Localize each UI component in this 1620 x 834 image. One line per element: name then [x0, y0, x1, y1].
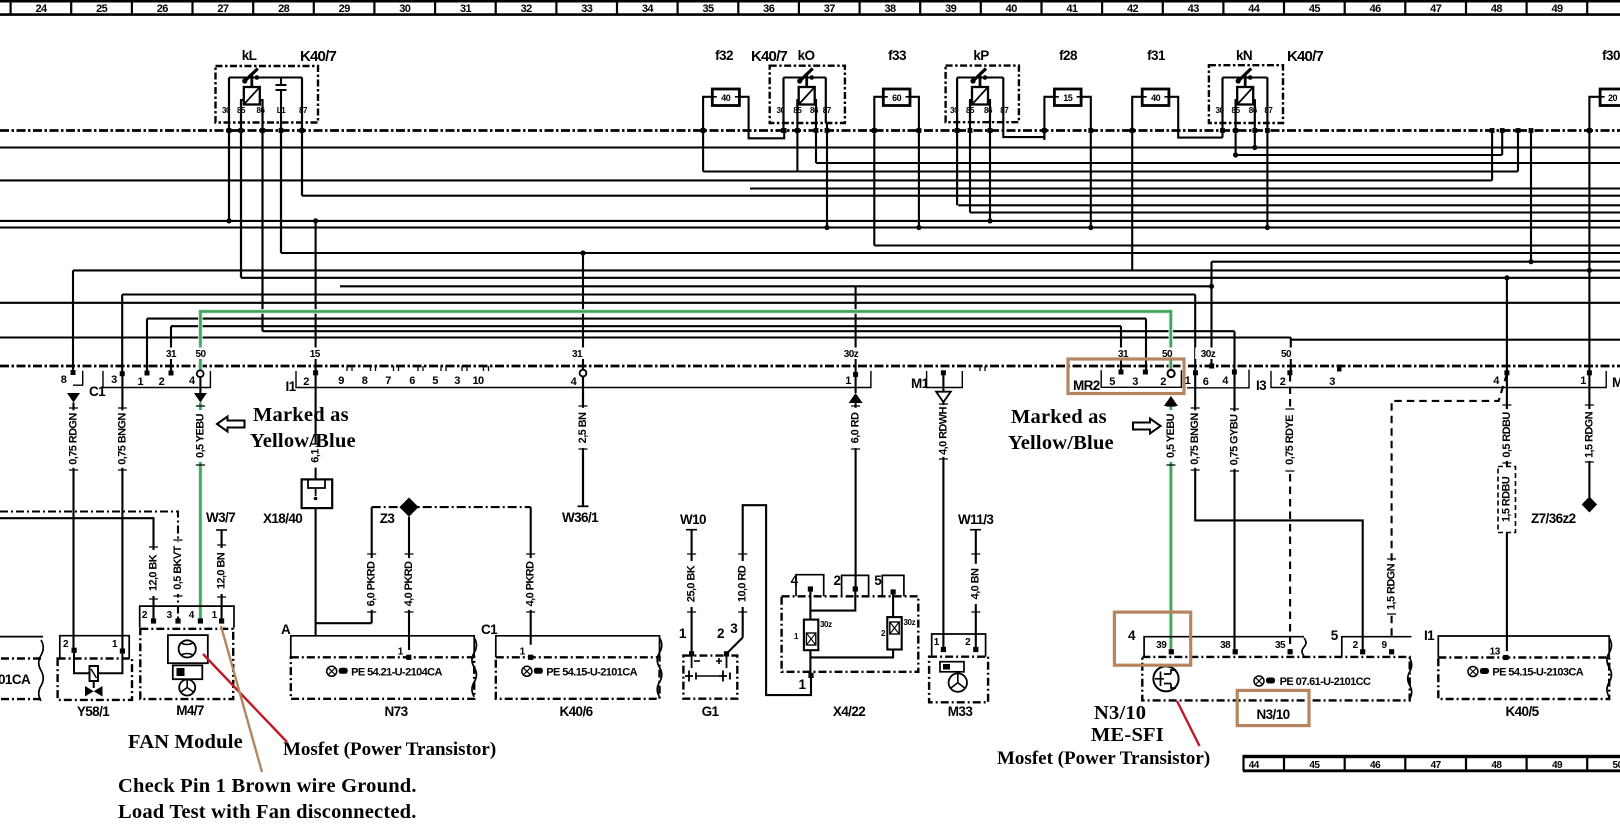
circuit label 30z over pin1: [838, 348, 864, 360]
bus line circuit 30 (dash-dot): [0, 129, 1620, 132]
svg-text:8: 8: [61, 374, 67, 386]
pin pad C1 pin1: [145, 371, 150, 376]
svg-text:K40/6: K40/6: [559, 704, 593, 719]
svg-text:43: 43: [1188, 3, 1200, 15]
wire 12,0 BN W3/7 to M4/7 pin1: [221, 530, 223, 621]
svg-text:50: 50: [1281, 349, 1292, 360]
wire M1 pad down RDWH to M33 pin1: [942, 373, 944, 650]
wire label 10,0 RD: [737, 561, 749, 607]
wire h326 elbow down to MR2 pin5: [1120, 326, 1122, 373]
svg-text:48: 48: [1491, 760, 1502, 771]
circuit label 30z over I3 pin6: [1195, 348, 1221, 360]
svg-text:W11/3: W11/3: [958, 512, 994, 527]
wire G1 pin2 switch link: [727, 638, 743, 654]
svg-text:45: 45: [1309, 760, 1320, 771]
wire f32 right jog to bus: [739, 97, 784, 139]
module K40/6 body box: [496, 657, 660, 699]
wire K40/5 pin13 feeder from h278: [1506, 278, 1508, 651]
svg-text:37: 37: [824, 3, 836, 15]
wire I1-4 pin jog dashed to N3/10 pin9: [1392, 374, 1507, 640]
wire line h303: [0, 302, 1620, 304]
label ticks RDYE: [1285, 409, 1294, 471]
label ticks 10,0 RD: [738, 554, 747, 612]
wire line h253 from kL-L1: [281, 252, 1620, 254]
wire kP pin87 jog to bus: [1003, 122, 1044, 137]
svg-text:PE 54.15-U-2103CA: PE 54.15-U-2103CA: [1492, 667, 1583, 679]
svg-text:33: 33: [581, 3, 593, 15]
wire 4,0 BN W11/3 to M33 pin2: [975, 530, 977, 650]
circuit label 50 over I3 pin2: [1276, 348, 1296, 360]
wire f33 right to h227: [910, 97, 919, 228]
ruler cell separators: [11, 2, 1588, 14]
component M4/7 body: [140, 629, 233, 699]
junction f33-h227: [916, 225, 921, 230]
svg-text:PE 54.21-U-2104CA: PE 54.21-U-2104CA: [351, 666, 442, 678]
junction f28-h227: [1088, 225, 1093, 230]
wire line h171: [703, 170, 1518, 172]
svg-text:60: 60: [892, 93, 902, 103]
fuse f33: [883, 89, 910, 106]
svg-text:85: 85: [966, 106, 975, 115]
svg-text:0,5 RDBU: 0,5 RDBU: [1501, 412, 1513, 458]
svg-text:1: 1: [799, 677, 807, 692]
wire kO pin87 down to h227: [826, 123, 828, 228]
boxed label 1,5 RDBU: [1498, 467, 1516, 533]
relay kO box: [770, 66, 845, 123]
svg-text:85: 85: [1232, 106, 1241, 115]
svg-text:39: 39: [1156, 640, 1167, 651]
svg-text:kP: kP: [973, 48, 989, 63]
junction h221-I1pin2: [313, 218, 318, 223]
svg-text:K40/7: K40/7: [751, 48, 787, 65]
pin pad C1 pin4 (circle): [197, 370, 204, 377]
component G1 pins: [689, 651, 694, 656]
wire label 0,75 BNGN: [116, 410, 128, 468]
svg-text:13: 13: [1490, 647, 1501, 658]
svg-text:40: 40: [1151, 93, 1161, 103]
svg-text:0,75 RDYE: 0,75 RDYE: [1284, 415, 1296, 465]
label ticks GYBU: [1230, 409, 1239, 471]
wire h262 corner down to I3 pin6: [1210, 262, 1212, 366]
annotation left block arrow: [217, 417, 245, 432]
highlight box N3/10 label: [1237, 690, 1309, 725]
svg-text:f32: f32: [715, 48, 733, 63]
module N73 logo glyphs: [327, 666, 348, 676]
component M4/7 pins 2 3 4 1: [151, 618, 156, 623]
svg-text:1: 1: [1185, 375, 1191, 387]
svg-text:42: 42: [1127, 3, 1139, 15]
connector bracket C1: [103, 371, 210, 388]
wire RDYE dashed I3 pin2 to N3/10 pin35: [1289, 374, 1291, 652]
svg-text:15: 15: [1063, 93, 1073, 103]
svg-text:4,0 BN: 4,0 BN: [970, 568, 982, 599]
solder point Z3 (diamond): [399, 498, 418, 517]
wire kP pin30 down to h205: [956, 122, 958, 205]
connector bracket C1 pin8: [73, 371, 83, 385]
wire kN pin30 down: [1221, 123, 1223, 138]
wire line h326 from C1 pin2 to MR2 pin5: [171, 325, 1121, 327]
module K40/5 torn edge: [1607, 638, 1612, 697]
svg-text:f31: f31: [1147, 48, 1166, 63]
svg-text:X4/22: X4/22: [833, 704, 865, 719]
component G1 body: [683, 656, 737, 699]
label ticks YEBU right: [1166, 406, 1175, 465]
wire kO pin86 down to h163: [815, 123, 817, 163]
wire bus drop to h180: [1491, 131, 1493, 181]
svg-text:12,0 BK: 12,0 BK: [147, 554, 159, 591]
label ticks RDGN: [69, 408, 78, 470]
wire kO pin30 to bus: [782, 123, 784, 131]
svg-text:01CA: 01CA: [0, 672, 31, 687]
wire label 6,1: [310, 444, 322, 467]
wire jog down at 1290: [1290, 338, 1292, 340]
svg-text:15: 15: [310, 349, 321, 360]
component X4/22 element 2 (fuse link): [887, 617, 901, 649]
label ticks RDWH: [939, 404, 948, 459]
wire label 0,5 YEBU right: [1165, 410, 1177, 462]
label ticks 6,0 RD: [851, 406, 860, 449]
wire h221 junction down to I1 pin2 and X18/40: [315, 221, 317, 480]
arrow MR2 pin2 starter feed (up): [1164, 396, 1178, 406]
relay kP pin stubs: [957, 78, 1003, 123]
wire line h180: [0, 179, 1492, 181]
module N3/10 mosfet symbol: [1153, 666, 1178, 691]
svg-text:1: 1: [1580, 375, 1586, 387]
wire label 1,5 RDGN right: [1583, 409, 1595, 461]
pin pad C1 pin2: [169, 371, 174, 376]
svg-text:2: 2: [1160, 376, 1166, 388]
svg-text:0,5 BKVT: 0,5 BKVT: [172, 545, 184, 589]
highlight box MR2 pins: [1068, 359, 1184, 394]
svg-text:I1: I1: [1424, 628, 1435, 643]
wire f30 left to bus down to rail and Z7 diamond: [1589, 97, 1600, 499]
wire 25,0 BK W10 to G1 pin1: [691, 530, 693, 654]
pin pad I1b pin4: [1504, 370, 1509, 375]
wire label 4,0 RDWH: [937, 405, 949, 457]
svg-text:85: 85: [237, 106, 246, 115]
circuit label 50 over MR2 pin2: [1157, 348, 1177, 360]
svg-text:30z: 30z: [844, 349, 859, 360]
wire line h286: [340, 285, 1212, 287]
green wire main run: [200, 311, 1170, 373]
wire label 0,75 BNGN right: [1189, 410, 1201, 468]
svg-text:28: 28: [278, 3, 290, 15]
label ticks BKVT: [174, 540, 183, 596]
svg-text:0,5 YEBU: 0,5 YEBU: [194, 413, 206, 458]
svg-text:W3/7: W3/7: [206, 510, 235, 525]
wire label 0,5 RDBU: [1501, 409, 1513, 461]
wire kN pin86 down to h147: [1254, 123, 1256, 148]
relay kN switch blade: [1237, 69, 1251, 83]
svg-text:12,0 BN: 12,0 BN: [216, 552, 228, 589]
wire 10,0 RD G1 to X4/22 pin1: [743, 505, 811, 695]
arrow C1 pin8 ground feed (down): [67, 393, 80, 403]
connector bracket M1: [927, 371, 963, 388]
module K40/5 logo glyphs: [1468, 667, 1489, 677]
solder point Z7/36z2 (diamond): [1582, 497, 1597, 513]
svg-text:85: 85: [793, 106, 802, 115]
svg-text:25,0 BK: 25,0 BK: [686, 565, 698, 602]
svg-text:Marked as: Marked as: [253, 404, 349, 426]
arrow C1 pin4 starter feed (down): [194, 393, 207, 403]
relay kL internal contact bar: [229, 77, 302, 79]
wire C1 pin4 stub: [199, 376, 201, 393]
component M33 pump symbol: [940, 662, 964, 672]
pin pad C1 pin8: [71, 370, 76, 375]
svg-text:1: 1: [845, 375, 851, 387]
component Y58/1 valve symbol: [74, 653, 122, 688]
wire h331 elbow down GYBU to N3/10 pin38: [1233, 331, 1235, 652]
svg-text:27: 27: [217, 3, 229, 15]
component G1 battery symbol: [692, 656, 727, 668]
bus junction pads: [227, 128, 1592, 133]
relay kN pin numbers: [1215, 106, 1273, 115]
wire line h196 from kL87: [302, 195, 1620, 197]
module K40/6 connector row: [496, 636, 660, 658]
wire 12,0 BK from left edge to M4/7 pin2: [0, 518, 154, 621]
wire 0,5 BKVT dash-dot from left edge to M4/7 pin3: [0, 512, 178, 622]
wire f31 right jog to kN pin30: [1169, 97, 1223, 138]
junction h286-end: [1209, 284, 1214, 289]
svg-text:4,0 PKRD: 4,0 PKRD: [403, 561, 415, 606]
svg-text:44: 44: [1248, 3, 1261, 15]
wire kP pin86 down to h221: [989, 122, 991, 221]
relay kP coil legs: [970, 100, 990, 110]
relay kN coil legs: [1236, 100, 1255, 110]
arrow pin1 feed 30z (up): [849, 393, 863, 403]
relay kL coil: [244, 87, 260, 105]
pin tick I3 pin3: [1337, 365, 1342, 372]
svg-text:46: 46: [1370, 760, 1381, 771]
svg-text:I3: I3: [1256, 378, 1267, 393]
module N73 body box: [291, 657, 474, 699]
ruler numbers 24-49: [35, 3, 1563, 15]
svg-text:1,5 RDGN: 1,5 RDGN: [1583, 411, 1595, 458]
svg-text:PE 54.15-U-2101CA: PE 54.15-U-2101CA: [546, 666, 637, 678]
svg-text:kN: kN: [1236, 48, 1252, 63]
svg-text:f33: f33: [888, 48, 907, 63]
relay kO coil: [799, 87, 815, 105]
svg-text:5: 5: [432, 375, 438, 387]
wire line h318 from C1 pin1 to MR2 pin3: [147, 318, 1146, 320]
module N73 connector row: [291, 636, 474, 658]
svg-text:86: 86: [810, 106, 819, 115]
wire label 25,0 BK: [686, 561, 698, 607]
relay kO pin stubs: [784, 78, 826, 124]
annotation pointer line red right: [1177, 701, 1200, 746]
svg-text:C1: C1: [481, 622, 498, 637]
arrow M1 (hollow down): [936, 392, 951, 403]
module N3/10 connector row section 5: [1342, 637, 1412, 657]
svg-text:0,5 YEBU: 0,5 YEBU: [1165, 413, 1177, 458]
svg-text:44: 44: [1249, 760, 1260, 771]
component M4/7 motor symbol: [173, 665, 203, 679]
relay kL pin numbers: [222, 106, 308, 115]
relay kP coil: [972, 87, 988, 105]
label ticks RDBU: [1502, 405, 1511, 463]
relay kO coil legs: [797, 100, 816, 110]
relay kP box: [946, 66, 1019, 123]
wire 0,75 RDGN to Y58/1 pin2: [72, 403, 74, 651]
svg-text:N3/10: N3/10: [1094, 702, 1146, 724]
wire bus drop to h155: [1501, 131, 1503, 156]
fuse f30: [1600, 89, 1620, 106]
svg-text:6,0 PKRD: 6,0 PKRD: [366, 561, 378, 606]
pin pad I1 pin4 (circle): [580, 370, 587, 377]
svg-text:9: 9: [338, 375, 344, 387]
svg-text:1: 1: [138, 376, 144, 388]
svg-text:K40/5: K40/5: [1505, 704, 1539, 719]
relay kP switch blade: [972, 69, 986, 83]
svg-text:Marked as: Marked as: [1011, 406, 1107, 428]
component M4/7 fan symbol: [168, 635, 208, 663]
wire 4,0 PKRD to K40/6 pin1: [530, 507, 532, 645]
svg-text:30z: 30z: [820, 620, 832, 629]
relay kP pin numbers: [950, 106, 1009, 115]
label ticks 1,5 RDGN right: [1585, 405, 1594, 462]
svg-text:46: 46: [1370, 3, 1382, 15]
svg-text:Mosfet (Power Transistor): Mosfet (Power Transistor): [997, 748, 1210, 769]
relay kL coil legs: [241, 100, 263, 110]
svg-text:ME-SFI: ME-SFI: [1091, 724, 1164, 746]
svg-text:20: 20: [1608, 93, 1618, 103]
svg-text:10: 10: [472, 375, 484, 387]
wire line h340 right of jog: [1291, 339, 1620, 341]
component Y58/1 pins: [72, 648, 77, 653]
svg-text:45: 45: [1309, 3, 1321, 15]
green wire MR2 pin2 to N3/10 pin39: [1170, 403, 1173, 650]
svg-text:48: 48: [1491, 3, 1503, 15]
wire h318 elbow down to MR2 pin3: [1145, 319, 1147, 374]
svg-text:4: 4: [791, 573, 799, 588]
relay kP internal contact bar: [957, 77, 1003, 79]
component X4/22 element 1 (fuse link): [804, 620, 818, 651]
wire Z3 horizontal link: [372, 506, 531, 508]
connector bracket MR2: [1101, 370, 1181, 387]
connector rail (dash-dot): [0, 365, 1620, 368]
svg-text:Check Pin 1 Brown wire Ground.: Check Pin 1 Brown wire Ground.: [118, 775, 417, 797]
svg-text:A: A: [281, 622, 291, 637]
relay kO switch blade: [799, 69, 813, 83]
wire f28 left to bus and h188: [1044, 97, 1054, 140]
svg-text:40: 40: [1006, 3, 1018, 15]
label ticks 2,5 BN: [579, 406, 588, 449]
svg-text:X18/40: X18/40: [263, 511, 302, 526]
wire kL pin30 down to h221: [228, 123, 230, 221]
wire h270 elbow down to C1 pin8: [72, 270, 74, 372]
connector bracket I3 group164: [1187, 370, 1249, 388]
svg-text:38: 38: [1220, 640, 1231, 651]
connector bracket I3: [1271, 371, 1606, 388]
relay kO internal contact bar: [784, 77, 826, 79]
green wire (starter signal 50, marked yellow/blue) left segment C1 pin4 to M4/7 pin4: [199, 403, 202, 621]
wire line h278 from kL85: [241, 277, 1620, 279]
svg-text:47: 47: [1430, 3, 1442, 15]
svg-text:1,5 RDGN: 1,5 RDGN: [1386, 563, 1398, 610]
svg-text:2: 2: [159, 376, 165, 388]
wire h337 elbow down to I3 pin2: [1290, 338, 1292, 373]
top frame ruler: [0, 0, 1620, 15]
svg-text:3: 3: [111, 374, 117, 386]
svg-text:K40/7: K40/7: [300, 48, 336, 65]
svg-text:30: 30: [950, 106, 959, 115]
svg-text:35: 35: [1275, 640, 1286, 651]
svg-text:38: 38: [884, 3, 896, 15]
pin pad I3 pin6: [1209, 364, 1214, 369]
module partial (left edge) body: [0, 636, 43, 638]
svg-text:2,5 BN: 2,5 BN: [577, 412, 589, 443]
wire 0,75 BNGN to Y58/1 pin1: [121, 376, 123, 651]
wire line h331 from kL86 to I3 pin4: [263, 330, 1235, 332]
module K40/5 connector row: [1438, 636, 1609, 658]
wire f33 left to h245: [874, 97, 883, 246]
svg-text:3: 3: [730, 621, 738, 636]
highlight box N3/10 pin39: [1114, 612, 1190, 665]
wire 4,0 PKRD Z3 to N73 pin1: [408, 517, 410, 650]
svg-text:PE 07.61-U-2101CC: PE 07.61-U-2101CC: [1280, 676, 1371, 688]
wire line h163: [816, 162, 1620, 164]
wire 6,0 RD to X4/22 pin2: [855, 403, 857, 589]
svg-text:W36/1: W36/1: [562, 510, 599, 525]
annotation right block arrow: [1133, 419, 1161, 434]
svg-text:5: 5: [1109, 376, 1115, 388]
svg-text:FAN Module: FAN Module: [128, 731, 243, 753]
wire h253 junction down to I1 pin4 W36/1: [582, 253, 584, 506]
component M33 body: [929, 657, 988, 703]
junction h253-W36: [580, 250, 585, 255]
svg-text:M4/7: M4/7: [176, 703, 204, 718]
wire label 0,5 BKVT: [172, 542, 184, 594]
circuit label 50 over C1 pin4: [191, 348, 211, 360]
svg-text:f28: f28: [1059, 48, 1078, 63]
wire line h270: [73, 269, 1620, 271]
relay kL box: [216, 66, 319, 123]
svg-text:1: 1: [679, 626, 687, 641]
svg-text:31: 31: [166, 349, 177, 360]
module K40/6 torn edge: [657, 638, 662, 697]
relay kN pin stubs: [1223, 78, 1268, 124]
svg-text:87: 87: [1000, 106, 1009, 115]
svg-text:Z3: Z3: [380, 511, 396, 526]
junction drop-h262: [1528, 259, 1533, 264]
fuse f28: [1054, 89, 1081, 106]
wire label 6,0 PKRD: [366, 558, 378, 610]
svg-text:N3/10: N3/10: [1256, 707, 1289, 722]
svg-text:4,0 PKRD: 4,0 PKRD: [525, 561, 537, 606]
wire f28 right to h227: [1081, 97, 1091, 228]
junction kO87-h227: [824, 225, 829, 230]
pin pad I3 pin2: [1287, 370, 1292, 375]
svg-text:8: 8: [362, 375, 368, 387]
pin pad I1 pin2: [313, 370, 318, 375]
wire line h262: [1212, 261, 1620, 263]
svg-text:32: 32: [521, 3, 533, 15]
wire line 15 (h147): [0, 146, 1620, 148]
wire X18/40 to N73 pinA area: [316, 508, 372, 636]
W11/3 stub tick: [970, 529, 981, 531]
wire label 0,5 YEBU left: [194, 410, 206, 462]
module N3/10 connector row section 4: [1144, 637, 1304, 657]
component M33 pins: [941, 647, 946, 652]
green wire glow underlay: [200, 311, 1171, 648]
component X4/22 internal wiring: [810, 589, 893, 678]
label ticks 1,5 RDGN: [1387, 559, 1396, 614]
svg-text:M33: M33: [948, 704, 974, 719]
circuit label 31 over I1 pin4: [567, 348, 587, 360]
svg-text:50: 50: [1613, 760, 1620, 771]
svg-text:30: 30: [222, 106, 231, 115]
svg-text:2: 2: [1280, 376, 1286, 388]
